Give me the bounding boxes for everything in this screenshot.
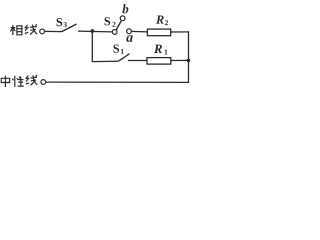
label 相线 (phase line) [10,25,37,35]
wire S1 to R1 [128,60,147,62]
phase terminal [40,29,45,34]
node A junction dot [90,29,94,33]
性 [14,76,16,87]
中 [1,78,9,82]
线 [26,76,29,82]
wire terminal to S3 [45,30,62,32]
label R2 [156,16,164,24]
label R1 [154,45,162,53]
wire R2 to right rail [171,31,189,33]
switch S2 blade [116,21,121,30]
switch S1 blade [118,54,129,62]
neutral terminal [41,80,46,85]
label a [126,35,132,42]
node B junction dot [187,59,191,63]
switch S2 contact b [120,16,125,21]
resistor R2 body [147,29,170,36]
label S3 [57,18,63,26]
相 [12,25,14,35]
线 [25,25,28,31]
neutral wire [46,81,189,83]
label 中性线 (neutral line) [1,75,37,87]
wire node A down to S1 row [92,31,119,62]
wire S3 to S2 pole [78,30,112,33]
switch S2 contact a [127,29,132,34]
label b [122,4,128,13]
switch S3 blade [62,24,77,32]
resistor R1 body [147,58,171,65]
wire R1 to right rail [171,59,189,61]
wire a to R2 [132,30,148,33]
switch S2 pole contact [112,30,117,35]
label S1 [113,45,119,53]
label S2 [105,17,111,25]
right rail wire [188,31,190,83]
